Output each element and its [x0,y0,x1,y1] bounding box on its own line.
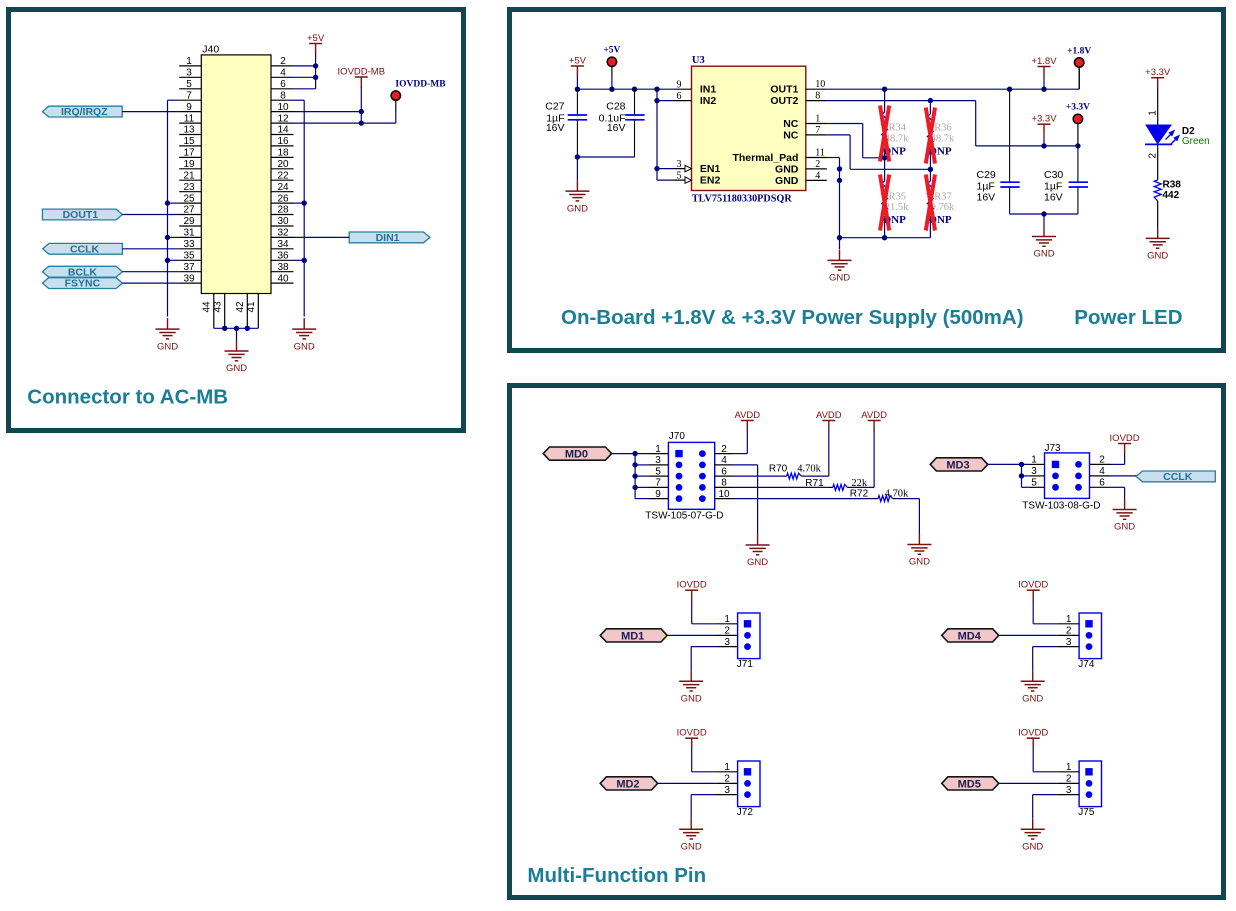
J70 pin 3 stub [648,464,668,466]
svg-text:+1.8V: +1.8V [1031,56,1057,67]
svg-text:U3: U3 [692,55,705,66]
J40 pin 13 stub [179,134,201,136]
sheet entry DIN1 [349,232,430,243]
svg-text:MD2: MD2 [616,778,639,790]
svg-text:10: 10 [277,102,289,113]
svg-text:IOVDD: IOVDD [677,728,707,739]
svg-text:3: 3 [186,68,192,79]
J40 pin 24 stub [271,191,294,193]
capacitor C28 [634,89,636,115]
svg-text:4: 4 [280,68,286,79]
J40 pin 4 stub [271,76,294,78]
svg-text:18: 18 [277,148,289,159]
svg-text:R36: R36 [934,122,952,133]
junction dot NC7-R36 [928,167,933,172]
wire MD1 to pin2 [667,634,716,636]
wire OUT1 rail [827,88,1079,90]
svg-text:GND: GND [681,841,702,852]
svg-text:3: 3 [1066,637,1072,648]
svg-text:41: 41 [246,301,257,313]
ground GND LED [1157,227,1159,238]
U3 pin 11 Thermal_Pad [806,157,827,159]
wire EN branch [656,89,658,180]
J40 pin 23 stub [179,191,201,193]
J40 pin 43 stub [224,294,226,329]
J75 pads [1085,768,1092,775]
svg-text:CCLK: CCLK [1163,471,1193,483]
svg-text:J75: J75 [1078,807,1095,818]
svg-text:R70: R70 [769,464,788,475]
wire J74 pin3 to GND [1033,646,1058,648]
svg-text:OUT2: OUT2 [770,95,798,107]
svg-text:IOVDD: IOVDD [1018,728,1048,739]
svg-text:28: 28 [277,205,289,216]
svg-text:NC: NC [783,129,799,141]
svg-text:44: 44 [202,301,213,313]
junction dots EN branch [654,98,659,103]
svg-text:MD1: MD1 [621,630,644,642]
resistor R34 [884,89,886,112]
svg-text:9: 9 [655,489,661,500]
J40 pin 42 stub [246,294,248,329]
svg-text:C28: C28 [606,101,625,113]
J70 pin 6 stub [715,475,732,477]
sheet entry MD0 [543,447,611,460]
svg-text:GND: GND [1114,522,1135,533]
J40 pin 18 stub [271,156,294,158]
svg-text:1: 1 [1147,110,1158,116]
svg-text:J72: J72 [737,807,754,818]
J70 pads left column [675,450,682,457]
J73 pin 5 stub [1029,486,1045,488]
svg-text:4.70k: 4.70k [885,489,909,500]
wire +5V down [576,77,578,90]
ground GND J72 [690,818,692,829]
svg-text:J73: J73 [1045,443,1062,454]
svg-text:8: 8 [280,90,286,101]
wire MD5 to pin2 [999,782,1058,784]
junction dots MD0 bus [632,451,637,456]
svg-text:24: 24 [277,182,289,193]
J40 pin 40 stub [271,282,294,284]
resistor R72 [732,498,873,500]
U3 pin 3 EN1 [674,168,692,170]
J40 pin 10 stub [271,111,294,113]
ground GND U3 [839,238,841,249]
connector J40 body [201,55,271,294]
svg-text:IRQ/IRQZ: IRQ/IRQZ [61,106,108,118]
svg-text:48.7k: 48.7k [931,134,955,145]
svg-text:R38: R38 [1163,179,1182,190]
ground GND J74 [1032,670,1034,681]
svg-text:EN1: EN1 [700,163,721,175]
svg-text:GND: GND [775,163,799,175]
svg-text:GND: GND [747,557,768,568]
wire IOVDD to J72 pin1 [691,749,693,772]
J73 pin 6 stub [1090,486,1111,488]
svg-text:IOVDD-MB: IOVDD-MB [395,80,446,90]
wire bottom pins to GND [214,327,258,329]
svg-text:R72: R72 [850,489,869,500]
LED D2 [1146,125,1171,144]
wire MD3 bus [988,463,1029,465]
J40 pin 25 stub [179,202,201,204]
svg-text:2: 2 [815,159,820,170]
svg-text:10: 10 [718,489,730,500]
svg-text:AVDD: AVDD [734,410,760,421]
svg-text:GND: GND [567,203,588,214]
J75 pin 1 stub [1058,771,1080,773]
capacitor C27 [576,89,578,115]
svg-text:Green: Green [1182,136,1210,147]
resistor R38 [1154,180,1161,201]
J40 pin 1 stub [179,65,201,67]
svg-text:GND: GND [1147,251,1168,262]
svg-text:1: 1 [1066,762,1072,773]
svg-text:3: 3 [1066,785,1072,796]
wire to LED anode [1157,88,1159,125]
svg-text:IOVDD: IOVDD [1018,580,1048,591]
sheet entry MD2 [600,777,658,790]
J71 pin 3 stub [716,646,738,648]
svg-text:13: 13 [183,125,195,136]
wire J73 pin4 to CCLK [1111,475,1137,477]
svg-text:16V: 16V [977,191,996,203]
svg-text:MD5: MD5 [958,778,981,790]
svg-text:2: 2 [724,626,730,637]
J71 pads [744,620,751,627]
svg-text:38: 38 [277,262,289,273]
sheet frame box3 [510,386,1224,898]
wire BCLK [122,271,179,273]
svg-text:+3.3V: +3.3V [1031,114,1057,125]
svg-text:C29: C29 [977,169,996,181]
wire J71 pin3 to GND [691,646,716,648]
sheet entry MD4 [942,629,999,642]
wire DOUT1 [122,214,179,216]
svg-text:Connector to AC-MB: Connector to AC-MB [27,386,228,409]
wire OUT2 rail [827,100,976,102]
LED arrows [1166,131,1179,145]
svg-text:6: 6 [1099,478,1105,489]
U3 pin 7 NC [806,134,827,136]
ground GND J70 pin4 [757,534,759,545]
svg-text:GND: GND [1022,841,1043,852]
wire J70 pin4 to GND [732,464,758,466]
ground GND bottom [236,340,238,351]
svg-text:+5V: +5V [307,33,325,44]
svg-text:8: 8 [815,91,820,102]
J40 pin 27 stub [179,214,201,216]
svg-text:TSW-103-08-G-D: TSW-103-08-G-D [1022,501,1100,512]
U3 pin 6 IN2 [674,100,692,102]
wire R38 to GND [1157,201,1159,227]
J72 pin 2 stub [716,782,738,784]
sheet entry IRQ/IRQZ [42,106,122,117]
svg-text:R34: R34 [889,122,907,133]
capacitor C29 [1009,89,1011,182]
J40 pin 41 stub [257,294,259,329]
svg-text:2: 2 [1099,455,1105,466]
svg-text:IN1: IN1 [700,84,717,96]
svg-text:+3.3V: +3.3V [1066,103,1090,113]
svg-text:7: 7 [655,478,661,489]
J40 pin 33 stub [179,248,201,250]
junction dots bottom [222,326,227,331]
svg-text:+3.3V: +3.3V [1145,67,1171,78]
svg-text:GND: GND [829,273,850,284]
U3 pin 2 GND [806,168,827,170]
wire FSYNC [122,282,179,284]
connector J74 body [1079,613,1101,659]
junction dots OUT2 [928,98,933,103]
wire thermal pad to GND [839,158,841,238]
wire LED cathode to R38 [1157,144,1159,180]
J40 pin 9 stub [179,111,201,113]
J40 pin 32 stub [271,236,294,238]
svg-text:3: 3 [724,637,730,648]
svg-text:4.70k: 4.70k [797,464,821,475]
svg-text:1: 1 [815,114,820,125]
junction dots right bus [302,200,307,205]
J40 pin 39 stub [179,282,201,284]
J73 pin 1 stub [1029,463,1045,465]
svg-text:GND: GND [909,557,930,568]
J70 pin 1 stub [648,453,668,455]
svg-text:R71: R71 [805,478,824,489]
sheet entry MD5 [942,777,999,790]
svg-text:12: 12 [277,113,289,124]
J70 pads right column [699,450,706,457]
J40 pin 6 stub [271,88,294,90]
wire J75 pin3 to GND [1033,794,1058,796]
wire J72 pin3 to GND [691,794,716,796]
svg-text:9.76k: 9.76k [931,202,955,213]
svg-text:19: 19 [183,159,195,170]
wire IOVDD to J75 pin1 [1032,749,1034,772]
wire J73 pin6 to GND [1111,486,1125,488]
J73 pin 3 stub [1029,475,1045,477]
svg-text:7: 7 [186,90,192,101]
svg-text:Power LED: Power LED [1074,306,1182,329]
svg-text:43: 43 [213,301,224,313]
svg-text:8: 8 [721,478,727,489]
svg-text:GND: GND [1022,693,1043,704]
svg-text:16V: 16V [607,122,626,134]
svg-text:+1.8V: +1.8V [1067,46,1091,56]
wire J70 pin2 to AVDD [746,431,748,454]
svg-text:6: 6 [721,466,727,477]
svg-text:TSW-105-07-G-D: TSW-105-07-G-D [645,511,723,522]
svg-text:34: 34 [277,239,289,250]
J72 pin 3 stub [716,794,738,796]
J74 pin 1 stub [1058,623,1080,625]
svg-text:16V: 16V [1044,191,1063,203]
U3 pin 1 NC [806,123,827,125]
J40 pin 31 stub [179,236,201,238]
ground GND R72 [918,534,920,545]
svg-text:AVDD: AVDD [861,410,887,421]
svg-text:1: 1 [724,762,730,773]
svg-text:CCLK: CCLK [70,243,100,255]
resistor R35 [884,158,886,181]
J73 pin 4 stub [1090,475,1111,477]
wire DIN1 [294,236,350,238]
resistor R70 [732,475,782,477]
svg-text:J74: J74 [1078,659,1095,670]
svg-text:3: 3 [724,785,730,796]
wire J73 pin2 to IOVDD [1124,454,1126,465]
wire +5V rail [577,88,674,90]
svg-text:GND: GND [226,363,247,374]
svg-text:MD0: MD0 [565,449,588,461]
wire MD0 bus [612,453,649,455]
wire MD4 to pin2 [999,634,1058,636]
svg-text:1: 1 [1066,614,1072,625]
svg-text:22k: 22k [851,478,868,489]
J40 pin 28 stub [271,214,294,216]
junction dots left bus [165,200,170,205]
svg-text:2: 2 [721,444,727,455]
J74 pads [1085,620,1092,627]
resistor R37 [929,169,931,181]
J40 pin 7 stub [179,99,201,101]
J40 pin 34 stub [271,248,294,250]
svg-text:IOVDD: IOVDD [677,580,707,591]
svg-text:Multi-Function Pin: Multi-Function Pin [527,864,706,887]
sheet entry DOUT1 [42,209,122,220]
J40 pin 20 stub [271,168,294,170]
svg-text:31: 31 [183,228,195,239]
J40 pin 35 stub [179,259,201,261]
junction dot NC1-R34 [882,155,887,160]
J40 pin 22 stub [271,179,294,181]
junction dots +5V rail [575,87,580,92]
wire GND rail bottom [840,237,931,239]
svg-text:4: 4 [1099,466,1105,477]
svg-text:29: 29 [183,216,195,227]
svg-text:25: 25 [183,193,195,204]
wire MD2 to pin2 [658,782,716,784]
svg-text:5: 5 [655,466,661,477]
wire NC7 net [827,134,850,136]
svg-text:4: 4 [721,455,727,466]
svg-text:33: 33 [183,239,195,250]
J40 pin 17 stub [179,156,201,158]
connector J73 body [1045,453,1090,499]
J70 pin 4 stub [715,464,732,466]
svg-text:15: 15 [183,136,195,147]
svg-text:1: 1 [724,614,730,625]
svg-text:1: 1 [186,56,192,67]
junction dots OUT1 rail [882,87,887,92]
svg-text:DIN1: DIN1 [376,232,400,244]
connector J71 body [738,613,760,659]
svg-text:IOVDD: IOVDD [1110,433,1140,444]
J40 pin 3 stub [179,76,201,78]
svg-text:GND: GND [775,175,799,187]
J40 pin 26 stub [271,202,294,204]
svg-text:AVDD: AVDD [816,410,842,421]
J40 pin 11 stub [179,122,201,124]
J72 pin 1 stub [716,771,738,773]
svg-text:2: 2 [1066,774,1072,785]
svg-text:1: 1 [1031,455,1037,466]
J40 pin 14 stub [271,134,294,136]
J40 pin 37 stub [179,271,201,273]
J75 pin 2 stub [1058,782,1080,784]
wire left GND bus [167,100,169,316]
sheet entry BCLK [42,266,122,277]
J74 pin 3 stub [1058,646,1080,648]
svg-text:2: 2 [280,56,286,67]
svg-text:16: 16 [277,136,289,147]
J40 pin 44 stub [213,294,215,329]
junction dots +5V [313,63,318,68]
svg-text:R37: R37 [934,192,952,203]
J71 pin 2 stub [716,634,738,636]
svg-text:OUT1: OUT1 [770,84,798,96]
svg-text:Thermal_Pad: Thermal_Pad [732,152,798,164]
svg-text:3: 3 [677,159,682,170]
svg-text:IN2: IN2 [700,95,717,107]
svg-text:2: 2 [724,774,730,785]
svg-text:21: 21 [183,170,195,181]
svg-text:37: 37 [183,262,195,273]
svg-text:9: 9 [186,102,192,113]
svg-text:3: 3 [1031,466,1037,477]
svg-text:5: 5 [1031,478,1037,489]
svg-text:21.5k: 21.5k [885,202,909,213]
J40 pin 30 stub [271,225,294,227]
svg-text:GND: GND [294,341,315,352]
svg-text:442: 442 [1163,190,1180,201]
wire IOVDD-MB to pins 10 12 [360,87,362,123]
junction dot caps bottom [575,154,580,159]
svg-text:3: 3 [655,455,661,466]
ground GND J75 [1032,818,1034,829]
svg-text:2: 2 [1147,153,1158,159]
resistor R36 [929,101,931,114]
junction dots IOVDD-MB [359,109,364,114]
svg-text:27: 27 [183,205,195,216]
J73 pads left column [1052,461,1059,468]
wire circle to pin12 [395,100,397,111]
svg-text:14: 14 [277,125,289,136]
svg-text:5: 5 [677,170,682,181]
U3 pin 5 EN2 [674,179,692,181]
op-amp U3 body [692,66,806,190]
J40 pin 2 stub [271,65,294,67]
svg-text:GND: GND [157,341,178,352]
svg-text:35: 35 [183,251,195,262]
J40 pin 36 stub [271,259,294,261]
wire IRQ/IRQZ [122,111,179,113]
J40 pin 38 stub [271,271,294,273]
svg-text:36: 36 [277,251,289,262]
svg-text:NC: NC [783,118,799,130]
svg-text:1: 1 [655,444,661,455]
ground GND right [303,318,305,329]
sheet entry MD3 [930,458,988,471]
svg-text:30: 30 [277,216,289,227]
svg-text:11: 11 [815,148,825,159]
sheet entry CCLK out [1136,471,1215,482]
svg-text:2: 2 [1066,626,1072,637]
J73 pads right column [1075,461,1082,468]
ground GND left [167,318,169,329]
svg-text:GND: GND [1033,249,1054,260]
